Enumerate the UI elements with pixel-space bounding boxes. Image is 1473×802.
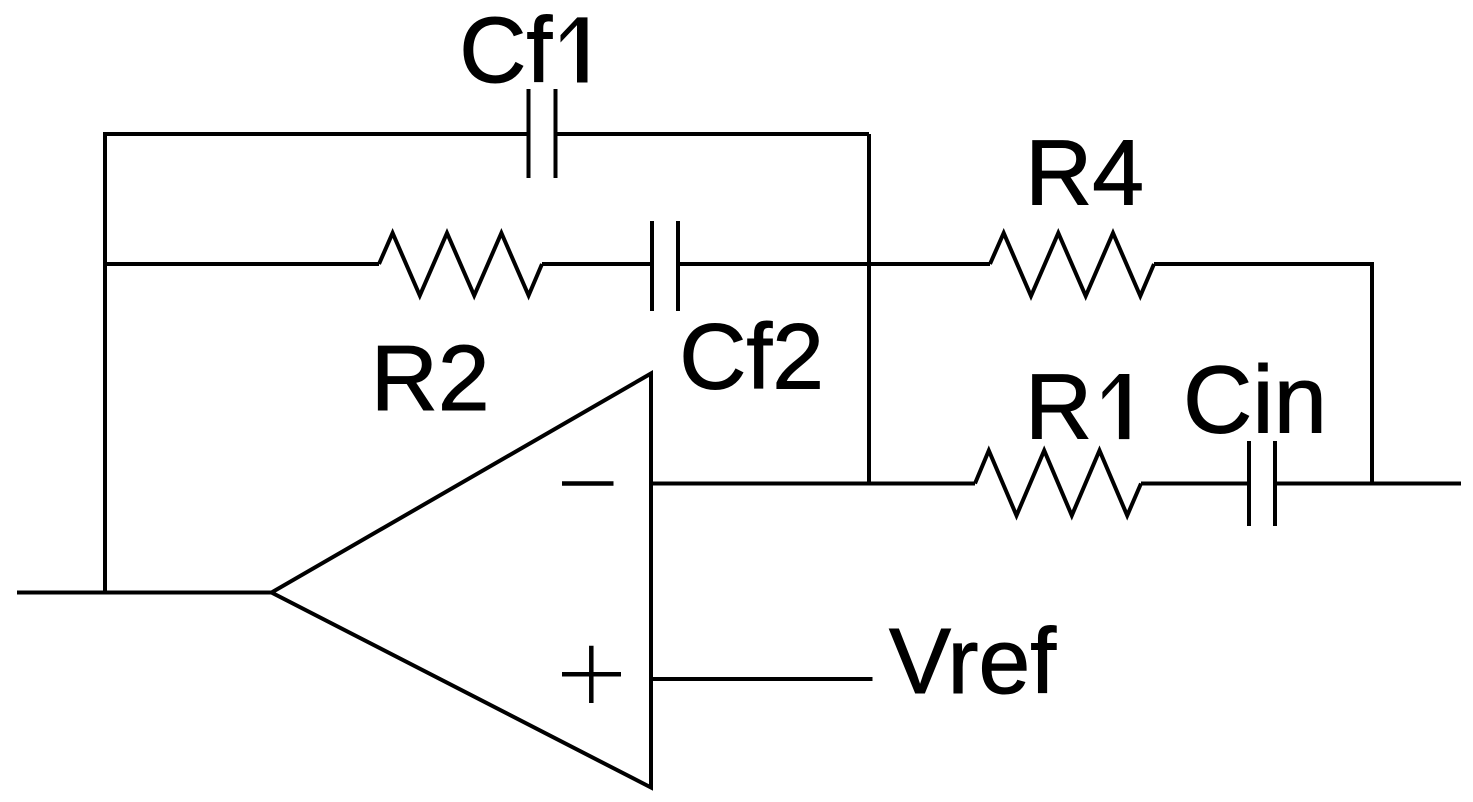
wire R1 to Cin	[1141, 482, 1249, 486]
svg-text:R: R	[1025, 355, 1092, 459]
wire R2 to Cf2	[542, 262, 652, 266]
svg-text:Vref: Vref	[889, 609, 1056, 713]
wire R4 to right corner	[1154, 262, 1372, 266]
wire left vertical	[103, 132, 107, 593]
capacitor Cf2	[652, 221, 678, 311]
capacitor Cin	[1249, 441, 1275, 526]
wire Cf2 to R4	[678, 262, 990, 266]
svg-text:Cf: Cf	[459, 0, 552, 102]
resistor R1	[975, 451, 1141, 516]
svg-text:R2: R2	[371, 326, 490, 430]
wire mid vertical node	[867, 134, 871, 484]
resistor R4	[990, 233, 1154, 296]
op-amp plus symbol	[562, 646, 621, 703]
op-amp U1	[272, 374, 652, 788]
capacitor Cf1	[529, 89, 556, 178]
svg-text:R4: R4	[1025, 120, 1144, 224]
wire feedback row left	[105, 262, 379, 266]
wire Cin to right edge	[1275, 482, 1461, 486]
svg-text:Cin: Cin	[1183, 347, 1327, 454]
wire top feedback left segment	[105, 132, 529, 136]
wire plus input	[651, 677, 873, 681]
wire output	[17, 591, 272, 595]
op-amp minus symbol	[562, 481, 614, 486]
wire right vertical	[1370, 262, 1374, 484]
wire top feedback right segment	[556, 132, 870, 136]
wire minus input row	[651, 482, 975, 486]
resistor R2	[379, 233, 542, 296]
svg-text:Cf2: Cf2	[679, 305, 824, 409]
